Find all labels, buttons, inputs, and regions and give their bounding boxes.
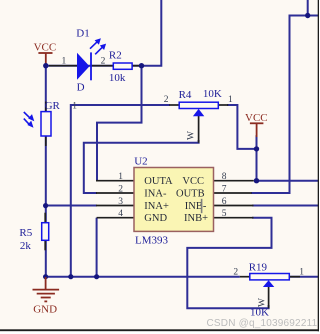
- junction dot pin 8: [254, 178, 259, 183]
- LED D1 pin 2 / R2 pin 1: [91, 65, 114, 67]
- junction dot right of R2: [139, 63, 144, 68]
- svg-text:2: 2: [233, 267, 238, 277]
- wire: pin 6 to right edge: [252, 205, 318, 207]
- svg-text:10K: 10K: [203, 88, 222, 100]
- VCC symbol right: [245, 112, 268, 137]
- U2 pin 6 line: [214, 205, 254, 207]
- wire: VCC2 stem lower navy segment: [256, 135, 258, 149]
- junction dot rail x=96.6: [94, 274, 99, 279]
- junction dot at VCC/LED: [43, 63, 48, 68]
- svg-text:4: 4: [118, 209, 123, 219]
- R4 wiper pin line: [198, 116, 200, 143]
- R5 pin bottom: [44, 240, 46, 250]
- wire: ground rail: [46, 276, 240, 278]
- svg-text:INA+: INA+: [144, 201, 169, 212]
- wire: R4 pin1 to VCC node: [227, 105, 257, 149]
- wire: pin 5 loop to R19 wiper: [187, 218, 271, 309]
- svg-text:2: 2: [101, 56, 106, 66]
- resistor R2: [113, 63, 132, 69]
- svg-text:8: 8: [222, 172, 227, 182]
- svg-text:W: W: [258, 298, 268, 307]
- wire: x=71 vertical down to ground rail: [70, 104, 72, 277]
- bottom window border: [0, 329, 319, 331]
- svg-text:2: 2: [164, 95, 169, 105]
- svg-text:VCC: VCC: [34, 42, 57, 54]
- junction dot GR/R5 divider: [43, 203, 48, 208]
- svg-text:INB-: INB-: [185, 201, 207, 212]
- svg-text:U2: U2: [134, 155, 147, 167]
- resistor R5: [42, 223, 49, 241]
- U2 pin 3 line: [96, 205, 134, 207]
- U2 pin 7 line: [214, 192, 252, 194]
- junction dot top-right: [305, 13, 310, 18]
- junction dot VCC/R4 node: [254, 146, 259, 151]
- svg-text:D: D: [77, 81, 85, 93]
- photoresistor GR: [24, 112, 51, 136]
- svg-text:OUTB: OUTB: [176, 189, 205, 200]
- svg-text:LM393: LM393: [135, 235, 169, 247]
- U2 pin 1 line: [96, 180, 134, 182]
- U2 pin 2 line: [96, 192, 134, 194]
- svg-text:10k: 10k: [109, 72, 126, 84]
- U2 pin 8 line: [214, 180, 254, 182]
- right window border: [318, 0, 319, 331]
- R4 pin 1 line: [218, 104, 229, 106]
- R4 pin 2 line: [169, 104, 180, 106]
- svg-text:R19: R19: [249, 262, 268, 274]
- svg-text:GND: GND: [33, 304, 57, 316]
- svg-text:OUTA: OUTA: [144, 176, 173, 187]
- svg-text:VCC: VCC: [182, 176, 204, 187]
- wire: R2 junction down-left to U2 pin 1: [97, 66, 142, 181]
- wire: R4 wiper to U2 pin 2: [84, 140, 199, 193]
- svg-text:1: 1: [118, 172, 123, 182]
- svg-text:VCC: VCC: [245, 112, 268, 124]
- R19 wiper pin line: [268, 286, 270, 308]
- GR pin top: [45, 102, 47, 112]
- svg-text:GR: GR: [45, 100, 61, 112]
- svg-text:2k: 2k: [20, 240, 32, 252]
- wire: pin 7 up to top-right: [251, 16, 318, 194]
- svg-text:D1: D1: [76, 28, 89, 40]
- wire: INA+ horizontal to divider node: [46, 205, 97, 207]
- wire: R19 pin1 to right edge: [289, 276, 318, 278]
- U2 pin 5 line: [214, 217, 254, 219]
- svg-text:1: 1: [228, 95, 233, 105]
- svg-text:10K: 10K: [250, 306, 269, 318]
- potentiometer R4: [179, 102, 218, 116]
- svg-text:W: W: [187, 131, 197, 140]
- wire: node to R4 pin 2 horizontal: [71, 104, 170, 106]
- svg-text:CSDN @q_1039692211: CSDN @q_1039692211: [207, 318, 318, 329]
- VCC symbol top-left: [34, 42, 57, 64]
- GR pin bottom: [45, 136, 47, 147]
- svg-text:1: 1: [72, 102, 77, 112]
- svg-text:2: 2: [118, 185, 123, 195]
- svg-text:R2: R2: [109, 50, 122, 62]
- svg-text:INB+: INB+: [184, 213, 208, 224]
- svg-text:5: 5: [222, 209, 227, 219]
- wire: top horizontal main row y=65.7: [46, 65, 142, 67]
- R2 pin 2: [131, 65, 139, 67]
- svg-text:3: 3: [118, 197, 123, 207]
- ground symbol GND: [33, 277, 60, 316]
- svg-text:7: 7: [222, 185, 227, 195]
- svg-text:R4: R4: [179, 89, 192, 101]
- wire: top-right stub to edge: [307, 0, 309, 16]
- wire: pin 8 to right edge: [257, 180, 319, 182]
- svg-text:1: 1: [62, 56, 67, 66]
- potentiometer R19: [250, 274, 289, 288]
- R5 pin top: [44, 213, 46, 223]
- junction dot rail at GND: [43, 274, 48, 279]
- svg-text:R5: R5: [19, 227, 32, 239]
- wire: VCC node down to pin 8: [256, 149, 258, 181]
- svg-text:INA-: INA-: [144, 189, 167, 200]
- R19 pin 2 line: [240, 276, 251, 278]
- LED D1 pin 1: [49, 65, 78, 67]
- svg-text:1: 1: [299, 268, 304, 278]
- text cursor artifact: [201, 199, 203, 213]
- wire: pin 4 down to rail: [96, 218, 98, 277]
- op-amp U2 LM393: [134, 168, 214, 232]
- U2 pin 4 line: [97, 217, 134, 219]
- svg-text:GND: GND: [144, 213, 167, 224]
- R19 pin 1 line: [288, 276, 300, 278]
- svg-text:6: 6: [222, 197, 227, 207]
- junction dot rail x=71: [68, 274, 73, 279]
- wire: main left vertical VCC to ground rail: [45, 63, 47, 277]
- LED D1: [77, 38, 106, 80]
- wire: R2 junction to top edge stub: [142, 0, 162, 66]
